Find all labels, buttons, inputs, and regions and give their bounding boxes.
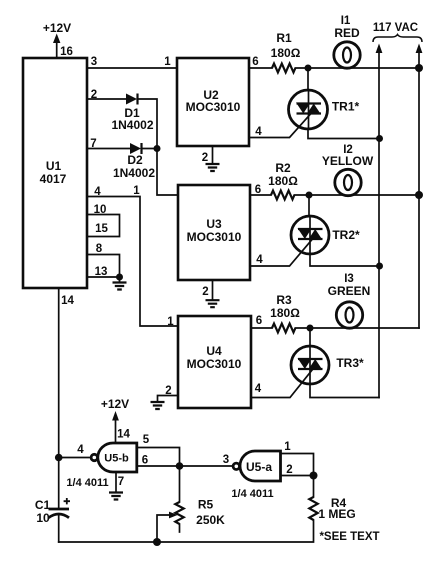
svg-text:1: 1 (284, 441, 291, 453)
pin 1 label U2 (164, 56, 171, 68)
wire loop pin 10 to pin 15 (87, 215, 120, 237)
wire TR2 bottom MT1 to left VAC line (310, 254, 380, 266)
svg-text:6: 6 (252, 56, 258, 68)
svg-text:R3: R3 (276, 293, 292, 307)
wire C1 bottom to ground bus corner (58, 514, 60, 542)
ground U3 pin 2 (206, 280, 220, 307)
wire TR3 bottom MT1 to left VAC line end (310, 384, 379, 398)
svg-text:4: 4 (255, 383, 262, 395)
svg-text:2: 2 (202, 152, 208, 164)
svg-text:14: 14 (61, 295, 74, 307)
svg-text:3: 3 (91, 56, 97, 68)
svg-text:U5-b: U5-b (104, 453, 129, 465)
wire loop pin 8 to pin 13 (87, 255, 120, 278)
wire U1 pin 7 to D2 anode (87, 148, 130, 150)
wire U1 pin 3 to U2 pin 1 (87, 67, 177, 69)
pin 7 label U5-b (118, 476, 124, 488)
svg-text:R5: R5 (198, 498, 214, 512)
svg-text:117 VAC: 117 VAC (373, 22, 418, 34)
junction dot R3/TR3 (307, 325, 314, 332)
triac TR3 (291, 346, 364, 384)
diode D2 1N4002 (113, 143, 155, 180)
pin 10 label U1 (94, 204, 107, 216)
svg-text:TR2*: TR2* (332, 228, 360, 242)
junction dot lamp I2 right / VAC line (415, 191, 423, 199)
svg-text:1: 1 (133, 185, 140, 197)
wire R4 bottom to ground bus (59, 520, 314, 542)
svg-text:1: 1 (164, 56, 171, 68)
ground U4 pin 2 (151, 396, 179, 410)
power +12V supply arrow (U1 pin 16) (43, 21, 71, 58)
NAND gate U5-a (1/4 4011, facing left) (233, 451, 280, 481)
junction dot TR2 MT1 / VAC left (376, 263, 383, 270)
svg-text:2: 2 (286, 464, 292, 476)
wire D1 cathode to junction column (138, 99, 158, 148)
resistor R2 180 ohm (268, 161, 298, 199)
IC U4 MOC3010 optocoupler (178, 316, 251, 408)
wire junction dot to TR3 top (MT2) (309, 328, 311, 347)
pin 4 label U5-b (77, 444, 84, 456)
svg-text:4: 4 (77, 444, 84, 456)
svg-text:1N4002: 1N4002 (113, 166, 155, 180)
wire junction dot to TR1 top (MT2) (307, 68, 309, 90)
svg-text:+12V: +12V (43, 21, 71, 35)
wire junction dot to TR2 top (MT2) (308, 195, 310, 217)
pin 13 label U1 (95, 266, 108, 278)
lamp I3 GREEN (328, 273, 371, 328)
NAND gate U5-b (1/4 4011, facing left) (91, 443, 137, 472)
svg-text:4017: 4017 (40, 172, 67, 186)
triac TR2 (291, 216, 360, 254)
pin 1 label U5-a (284, 441, 291, 453)
svg-text:10: 10 (36, 511, 50, 525)
pin 7 label U1 (90, 138, 96, 150)
svg-text:14: 14 (117, 429, 130, 441)
junction dot pin4/C1 column (55, 454, 63, 462)
wire U4 pin 6 to R3 (251, 327, 272, 329)
diode D1 1N4002 (111, 94, 153, 133)
svg-text:4: 4 (256, 254, 263, 266)
junction dot pins 1/2 to R4 (310, 472, 318, 480)
svg-text:2: 2 (202, 286, 208, 298)
ground U2 pin 2 (206, 146, 220, 171)
svg-text:MOC3010: MOC3010 (187, 230, 242, 244)
svg-text:6: 6 (256, 315, 262, 327)
junction dot R1/TR1 (305, 65, 312, 72)
pin 2 label U2 (202, 152, 208, 164)
wire U2 pin 6 to R1 (249, 67, 272, 69)
svg-text:7: 7 (118, 476, 124, 488)
svg-text:U5-a: U5-a (246, 460, 272, 474)
ground U1 pins 8/13 (113, 277, 127, 290)
wire U1 pin 2 to D1 anode (87, 98, 126, 100)
pin 6 label U4 (256, 315, 262, 327)
pin 1 label U3 (133, 185, 140, 197)
resistor R4 1 MEG (309, 496, 355, 521)
svg-text:180Ω: 180Ω (268, 174, 298, 188)
svg-text:R2: R2 (275, 161, 291, 175)
pin 5 label U5-b (143, 434, 150, 446)
svg-text:GREEN: GREEN (328, 284, 371, 298)
svg-text:R1: R1 (276, 31, 292, 45)
117 VAC left conductor with up arrow (376, 44, 383, 398)
svg-text:250K: 250K (196, 513, 225, 527)
resistor R1 180 ohm (271, 31, 301, 72)
wire D2 cathode junction down to U3 pin 1 (142, 149, 179, 196)
wire U3 pin 4 to TR2 gate (250, 239, 313, 266)
wire R5 top lead from pins 5/6 junction (179, 466, 181, 502)
svg-text:*SEE TEXT: *SEE TEXT (319, 531, 379, 543)
wire U5-b pin 6 to U5-a output (137, 465, 233, 467)
svg-text:8: 8 (96, 243, 103, 255)
IC U2 MOC3010 optocoupler (177, 58, 249, 146)
svg-text:5: 5 (143, 434, 150, 446)
wire U5-a pin 2 to R4 (281, 475, 314, 477)
svg-text:RED: RED (334, 26, 360, 40)
svg-text:3: 3 (223, 454, 229, 466)
wire junction to R4 top (313, 476, 315, 498)
svg-text:1/4 4011: 1/4 4011 (66, 477, 108, 489)
wire R2 to lamp I2 and VAC line (294, 194, 419, 196)
pin 4 label U3 (256, 254, 263, 266)
capacitor C1 10uF polarized (35, 498, 70, 525)
pin 2 label U1 (91, 89, 97, 101)
svg-text:TR1*: TR1* (332, 100, 360, 114)
junction dot R5 wiper / ground bus (153, 538, 161, 546)
junction dot TR1 MT1 / VAC left (376, 135, 383, 142)
pin 8 label U1 (96, 243, 103, 255)
label 1/4 4011 (U5-a) (231, 488, 273, 500)
lamp I1 RED (334, 15, 360, 68)
svg-text:1: 1 (167, 316, 174, 328)
pin 2 label U3 (202, 286, 208, 298)
pin 14 label U1 (61, 295, 74, 307)
wire U5-b output pin 4 to C1 column (59, 457, 91, 459)
pin 4 label U1 (94, 186, 101, 198)
pin 2 label U4 (165, 385, 171, 397)
svg-text:180Ω: 180Ω (271, 46, 301, 60)
svg-text:U1: U1 (46, 159, 62, 173)
wire U1 pin 14 down to C1 (58, 288, 60, 508)
pin 15 label U1 (95, 223, 108, 235)
pin 1 label U4 (167, 316, 174, 328)
svg-text:+12V: +12V (101, 397, 129, 411)
label *SEE TEXT (319, 531, 379, 543)
power +12V supply arrow (U5-b pin 14) (101, 397, 129, 443)
junction dot R2/TR2 (306, 192, 313, 199)
svg-text:1N4002: 1N4002 (111, 118, 153, 132)
svg-text:1/4 4011: 1/4 4011 (231, 488, 273, 500)
resistor R5 250K (rheostat) (175, 498, 225, 533)
svg-text:4: 4 (255, 126, 262, 138)
svg-text:D2: D2 (127, 153, 143, 167)
wire R3 to lamp I3 and VAC corner (295, 327, 419, 329)
117 VAC label and brace (373, 22, 422, 42)
svg-text:MOC3010: MOC3010 (186, 100, 241, 114)
pin 2 label U5-a (286, 464, 292, 476)
wire U2 pin 4 to TR1 gate (249, 114, 311, 138)
svg-text:TR3*: TR3* (336, 356, 364, 370)
wire U3 pin 6 to R2 (250, 194, 271, 196)
svg-text:1 MEG: 1 MEG (318, 507, 355, 521)
ground U5-b pin 7 (109, 472, 123, 500)
pin 16 label (60, 46, 73, 58)
IC U1 4017 decade counter (23, 58, 87, 288)
wire U1 pin 4 down to U4 pin 1 (87, 197, 178, 327)
pin 4 label U4 (255, 383, 262, 395)
pin 14 label U5-b (117, 429, 130, 441)
lamp I2 YELLOW (322, 144, 374, 196)
svg-text:U4: U4 (206, 344, 222, 358)
junction dot pins 8/13 to ground (116, 274, 123, 281)
wire U5-a pin 1 loop to pin 2 (281, 454, 314, 476)
label 1/4 4011 (U5-b) (66, 477, 108, 489)
pin 3 label (91, 56, 97, 68)
pin 6 label U5-b (142, 455, 148, 467)
svg-text:6: 6 (142, 455, 148, 467)
resistor R3 180 ohm (270, 293, 300, 332)
junction dot lamp I1 right / VAC line (415, 64, 423, 72)
wiper wire R5 to ground bus (157, 512, 178, 542)
junction dot pins 5/6 to R5 (176, 462, 184, 470)
junction dot D1/D2 cathodes (154, 145, 161, 152)
svg-text:YELLOW: YELLOW (322, 154, 374, 168)
pin 6 label U2 (252, 56, 258, 68)
wire R1 to lamp I1 and 117VAC line (295, 67, 419, 69)
svg-text:MOC3010: MOC3010 (187, 357, 242, 371)
triac TR1 (289, 90, 360, 129)
wire TR1 bottom MT1 to left VAC line (308, 129, 380, 139)
pin 4 label U2 (255, 126, 262, 138)
svg-text:C1: C1 (35, 498, 51, 512)
pin 3 label U5-a (223, 454, 229, 466)
pin 6 label U3 (255, 184, 261, 196)
svg-text:U3: U3 (206, 217, 222, 231)
wire U5-b pin 5 loop to pin 6 (137, 448, 180, 467)
wire U4 pin 4 to TR3 gate (251, 370, 313, 398)
IC U3 MOC3010 optocoupler (178, 185, 250, 280)
svg-text:180Ω: 180Ω (270, 306, 300, 320)
svg-text:15: 15 (95, 223, 108, 235)
svg-text:16: 16 (60, 46, 73, 58)
117 VAC right conductor with up arrow (416, 44, 423, 329)
